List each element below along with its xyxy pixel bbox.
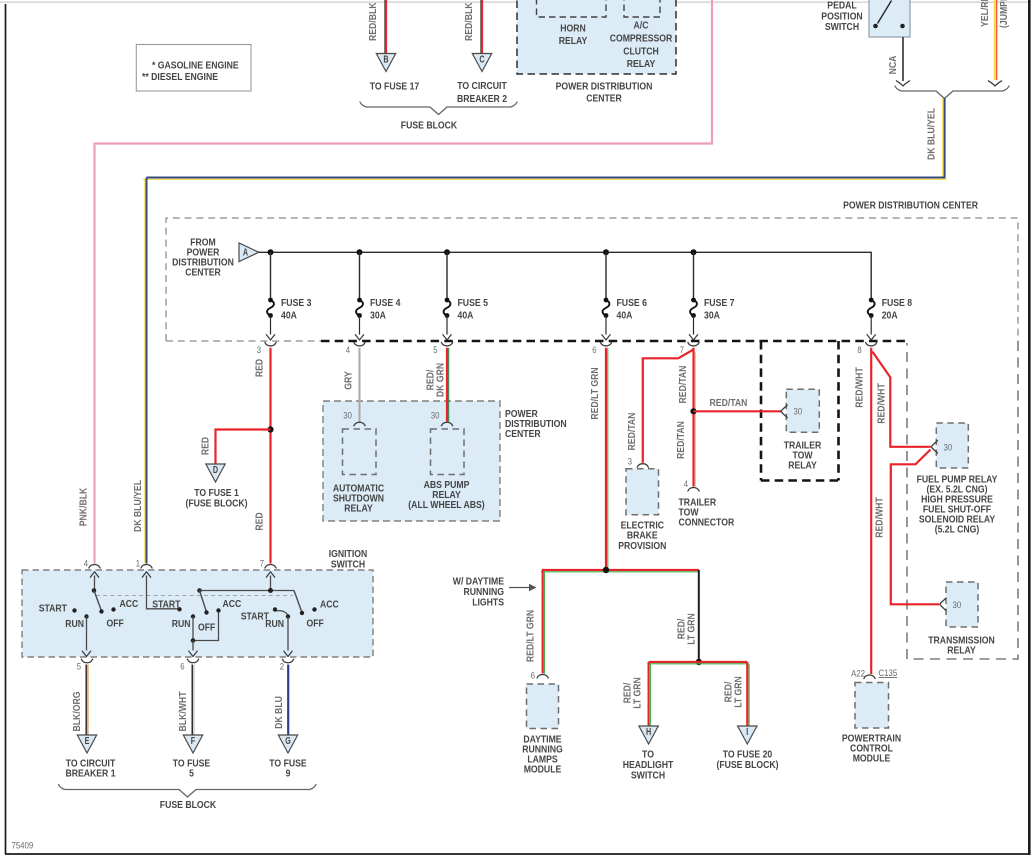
connector triangle G: [278, 735, 297, 753]
connector triangle C: [472, 54, 491, 72]
junction node trailer tow: [690, 408, 696, 414]
label RED/LT GRN (fuse 6): [590, 367, 601, 419]
label RED/WHT (branch lower): [875, 497, 886, 538]
daytime running lamps module box: [527, 684, 559, 729]
svg-text:7: 7: [260, 559, 264, 569]
label transmission relay: [928, 636, 995, 657]
svg-text:RED/BLK: RED/BLK: [464, 2, 475, 41]
svg-text:20A: 20A: [882, 311, 898, 322]
svg-text:8: 8: [857, 345, 861, 355]
svg-text:FUSE BLOCK: FUSE BLOCK: [160, 800, 217, 811]
svg-text:RELAY: RELAY: [947, 646, 976, 657]
svg-text:SWITCH: SWITCH: [331, 560, 365, 571]
trailer tow relay box: [786, 389, 819, 432]
wire RED/TAN branch to electric brake: [643, 350, 694, 463]
svg-text:LT GRN: LT GRN: [687, 613, 698, 645]
fuse 3 40A: [266, 252, 311, 340]
svg-text:W/ DAYTIME: W/ DAYTIME: [453, 577, 504, 588]
connector triangle D: [206, 464, 225, 482]
label horn relay: [559, 24, 588, 48]
wire PNK/BLK: [94, 0, 714, 564]
svg-text:7: 7: [680, 345, 684, 355]
svg-text:FUSE 6: FUSE 6: [617, 298, 648, 309]
pin 3 connector at PDC: [257, 342, 276, 355]
svg-text:RED/TAN: RED/TAN: [710, 398, 748, 409]
label automatic shutdown relay: [333, 484, 385, 515]
wire RED/DK GRN fuse 5 to ABS relay: [447, 348, 449, 422]
junction node RED: [267, 426, 273, 432]
DRL module pin 6: [531, 671, 549, 681]
svg-text:NCA: NCA: [888, 55, 899, 74]
svg-text:LT GRN: LT GRN: [734, 676, 745, 708]
label RED/LT GRN (fuse 20): [724, 676, 745, 708]
label electric brake provision: [618, 521, 666, 553]
svg-text:A: A: [243, 247, 249, 258]
svg-text:TO: TO: [642, 750, 654, 761]
pin 8 connector at PDC: [857, 342, 876, 355]
switch pole 2 feed: [142, 572, 177, 609]
switch pole 2 labels: [152, 599, 242, 634]
svg-text:RUN: RUN: [265, 619, 284, 630]
bus junction node fuse 4: [357, 249, 363, 255]
svg-text:(JUMPER): (JUMPER): [999, 0, 1010, 28]
switch pole 2 link node: [191, 638, 196, 643]
label RED/WHT (main): [855, 367, 866, 408]
label ignition switch: [329, 549, 368, 571]
automatic shutdown relay box: [343, 429, 377, 475]
svg-text:9: 9: [286, 769, 291, 780]
svg-text:CONNECTOR: CONNECTOR: [679, 518, 735, 529]
label DK BLU/YEL (at ignition): [133, 480, 144, 532]
brace joining NCA and jumper: [895, 86, 1009, 99]
svg-text:PROVISION: PROVISION: [618, 541, 666, 552]
pedal position switch box: [869, 0, 910, 37]
svg-text:LT GRN: LT GRN: [633, 677, 644, 709]
fuse 7 30A: [689, 252, 734, 340]
svg-text:FUSE 7: FUSE 7: [704, 298, 735, 309]
ignition pin 5: [77, 659, 93, 671]
svg-text:FUSE BLOCK: FUSE BLOCK: [401, 121, 458, 132]
wire RED/LT GRN fuse 6 down: [606, 348, 608, 570]
svg-text:FUSE 3: FUSE 3: [281, 298, 312, 309]
svg-text:RED/TAN: RED/TAN: [678, 366, 689, 404]
svg-text:FUSE 4: FUSE 4: [370, 298, 401, 309]
svg-text:6: 6: [180, 662, 184, 672]
svg-text:RED/WHT: RED/WHT: [877, 383, 888, 424]
wire RED/LT GRN to DRL module: [543, 570, 545, 674]
label RED (lower): [255, 512, 266, 530]
svg-text:RED: RED: [201, 437, 212, 455]
label to headlight switch: [623, 750, 674, 782]
label RED (upper): [255, 359, 266, 377]
label YEL/RED: [980, 0, 991, 27]
switch pole 1 common: [92, 588, 97, 593]
svg-text:OFF: OFF: [307, 619, 324, 630]
svg-text:DK GRN: DK GRN: [436, 363, 447, 397]
svg-text:* GASOLINE ENGINE: * GASOLINE ENGINE: [152, 61, 239, 72]
svg-text:FUSE 5: FUSE 5: [458, 298, 489, 309]
wire DK BLU/YEL: [143, 98, 947, 564]
svg-text:ACC: ACC: [320, 600, 339, 611]
switch pole 1 output: [82, 617, 90, 657]
powertrain control module box: [855, 683, 889, 729]
connector triangle H: [639, 726, 658, 744]
svg-text:TO FUSE 1: TO FUSE 1: [194, 488, 239, 499]
svg-text:RED/WHT: RED/WHT: [875, 497, 886, 538]
label pedal position switch: [821, 1, 862, 34]
wire RED/WHT branch to fuel pump relay: [872, 352, 930, 447]
switch pole 2 acc link: [193, 613, 219, 641]
svg-text:1: 1: [136, 559, 140, 569]
svg-text:RELAY: RELAY: [344, 504, 373, 515]
abs pump relay box: [431, 429, 465, 475]
label RED/LT GRN (headlight): [623, 677, 644, 709]
pin 6 connector at PDC: [592, 342, 611, 355]
label power distribution center (side): [505, 409, 567, 440]
switch pole 1 feed: [90, 572, 98, 591]
svg-text:(FUSE BLOCK): (FUSE BLOCK): [185, 499, 247, 510]
switch pole 1 blade: [94, 591, 102, 612]
diagram number 75409: [12, 841, 34, 851]
ABS relay pin 30: [431, 411, 453, 426]
label a/c compressor clutch relay: [610, 21, 673, 71]
electric brake pin 3: [628, 457, 649, 468]
wire RED/BLK to fuse 17: [385, 0, 386, 54]
svg-text:5: 5: [77, 662, 81, 672]
junction node pole 3 feed: [268, 588, 273, 593]
svg-text:RELAY: RELAY: [559, 36, 588, 47]
ignition common bus: [200, 590, 295, 592]
label RED (branch): [201, 437, 212, 455]
power distribution center outline (right, fuel pump/transmission area): [907, 341, 1018, 659]
svg-text:RELAY: RELAY: [788, 461, 817, 472]
pin 7 connector at PDC: [680, 342, 699, 355]
label RED/BLK (C): [464, 2, 475, 41]
switch pole 3 output: [284, 617, 292, 657]
trailer tow relay pin 30: [781, 405, 802, 417]
svg-text:FUSE 8: FUSE 8: [882, 298, 913, 309]
connector triangle F: [183, 735, 202, 753]
svg-text:BRAKE: BRAKE: [627, 531, 658, 542]
svg-text:RUN: RUN: [172, 619, 191, 630]
svg-text:3: 3: [628, 457, 632, 467]
wire BLK/WHT: [192, 665, 194, 736]
svg-text:RED/LT GRN: RED/LT GRN: [590, 367, 601, 419]
svg-text:TO FUSE 20: TO FUSE 20: [723, 750, 773, 761]
ASD relay pin 30: [343, 411, 365, 426]
connector triangle E: [77, 735, 96, 753]
switch pole 2 common: [197, 588, 202, 593]
switch pole 3 feed: [266, 572, 274, 591]
trailer tow relay enclosure: [761, 341, 839, 481]
horn relay box: [537, 0, 607, 17]
wire RED fuse 3 to ignition pin 7: [269, 348, 271, 564]
svg-text:BLK/ORG: BLK/ORG: [72, 691, 83, 731]
ignition pin 1: [136, 559, 152, 569]
svg-text:4: 4: [346, 345, 350, 355]
svg-text:MODULE: MODULE: [853, 754, 891, 765]
switch pole 3 labels: [241, 600, 340, 631]
svg-text:SWITCH: SWITCH: [631, 771, 665, 782]
svg-text:H: H: [646, 727, 651, 738]
svg-text:RED: RED: [255, 359, 266, 377]
svg-text:RED/LT GRN: RED/LT GRN: [526, 610, 537, 662]
thick dashed PDC boundary: [321, 340, 907, 343]
junction node headlight/fuse20: [696, 659, 702, 665]
svg-text:RELAY: RELAY: [627, 59, 656, 70]
svg-text:START: START: [39, 604, 68, 615]
junction node daytime running: [603, 567, 609, 573]
label to circuit breaker 2: [457, 81, 507, 105]
fuse block brace (top): [360, 102, 517, 115]
svg-text:(FUSE BLOCK): (FUSE BLOCK): [716, 760, 778, 771]
svg-text:75409: 75409: [12, 841, 34, 851]
svg-text:RUN: RUN: [65, 619, 84, 630]
svg-text:6: 6: [531, 671, 535, 681]
label to fuse 17: [370, 82, 420, 93]
svg-text:30: 30: [794, 407, 803, 417]
svg-text:RED/TAN: RED/TAN: [627, 413, 638, 451]
connector triangle A: [239, 243, 259, 262]
svg-text:E: E: [85, 736, 90, 747]
svg-text:GRY: GRY: [344, 371, 355, 390]
label to circuit breaker 1: [65, 759, 115, 780]
fuse block brace (bottom): [59, 785, 317, 798]
svg-text:PNK/BLK: PNK/BLK: [79, 487, 90, 526]
bus junction node fuse 6: [603, 249, 609, 255]
svg-text:LIGHTS: LIGHTS: [472, 598, 504, 609]
svg-text:RUNNING: RUNNING: [464, 587, 505, 598]
svg-text:30: 30: [431, 411, 440, 421]
wire RED/WHT fuse 8 to PCM: [870, 348, 872, 674]
svg-text:C135: C135: [879, 668, 898, 678]
bus junction node fuse 5: [444, 249, 450, 255]
svg-text:B: B: [383, 55, 388, 66]
ignition pin 6: [180, 659, 198, 671]
label RED/TAN (horizontal): [710, 398, 748, 409]
pin 5 connector at PDC: [433, 342, 452, 355]
bus junction node fuse 7: [691, 249, 697, 255]
svg-text:(5.2L CNG): (5.2L CNG): [935, 525, 980, 536]
label to fuse 1 (fuse block): [185, 488, 247, 510]
label GRY: [344, 371, 355, 390]
svg-text:HORN: HORN: [560, 24, 586, 35]
wire RED/TAN to trailer tow relay: [694, 410, 782, 412]
label DK BLU: [274, 696, 285, 729]
label abs pump relay: [408, 480, 484, 511]
svg-text:DK BLU/YEL: DK BLU/YEL: [927, 108, 938, 160]
svg-text:CENTER: CENTER: [185, 268, 221, 279]
svg-text:YEL/RED: YEL/RED: [980, 0, 991, 27]
svg-text:** DIESEL ENGINE: ** DIESEL ENGINE: [142, 72, 218, 83]
label fuse block (bottom): [160, 800, 217, 811]
svg-text:DK BLU: DK BLU: [274, 696, 285, 729]
switch pole 3 wiper arc: [277, 611, 288, 615]
svg-text:IGNITION: IGNITION: [329, 549, 368, 560]
ignition switch box: [22, 570, 373, 657]
label fuse block (top): [401, 121, 458, 132]
svg-text:40A: 40A: [281, 311, 297, 322]
label powertrain control module: [842, 734, 901, 765]
svg-text:START: START: [152, 600, 181, 611]
label to fuse 20 (fuse block): [716, 750, 778, 772]
svg-text:RED/TAN: RED/TAN: [676, 421, 687, 459]
fuse 4 30A: [355, 252, 400, 340]
ignition pin 7: [260, 559, 276, 569]
svg-text:ACC: ACC: [120, 599, 139, 610]
switch pole 3 contacts: [273, 607, 317, 618]
label from power distribution center: [172, 238, 234, 279]
svg-text:3: 3: [257, 345, 261, 355]
label RED/TAN (lower): [676, 421, 687, 459]
svg-text:30A: 30A: [704, 311, 720, 322]
switch pole 3 blade: [294, 591, 302, 613]
svg-text:(ALL WHEEL ABS): (ALL WHEEL ABS): [408, 500, 484, 511]
svg-text:CLUTCH: CLUTCH: [623, 47, 659, 58]
svg-text:F: F: [191, 736, 195, 747]
wire RED/WHT fuel pump to transmission relay: [891, 450, 939, 605]
wire NCA from pedal position switch: [896, 37, 909, 86]
label trailer tow connector: [679, 498, 735, 529]
label RED/DK GRN: [426, 363, 447, 397]
svg-text:C: C: [479, 55, 485, 66]
svg-text:HEADLIGHT: HEADLIGHT: [623, 760, 674, 771]
svg-text:6: 6: [592, 345, 596, 355]
legend box engine notes: [136, 45, 251, 92]
label BLK/WHT: [178, 691, 189, 732]
fuel pump relay pin 30: [931, 441, 952, 453]
label PNK/BLK: [79, 487, 90, 526]
wire GRY fuse 4 to ASD relay: [359, 348, 361, 422]
svg-text:30: 30: [343, 411, 352, 421]
wire RED/LT GRN vertical (drawn dark): [698, 570, 700, 662]
svg-text:ACC: ACC: [223, 599, 242, 610]
svg-text:DK BLU/YEL: DK BLU/YEL: [133, 480, 144, 532]
svg-text:CENTER: CENTER: [586, 94, 622, 105]
power distribution center box (ASD/ABS relays): [323, 401, 500, 521]
label power distribution center (upper box): [843, 201, 978, 212]
label power distribution center (top): [556, 82, 653, 105]
fuel pump relay box: [936, 423, 968, 468]
svg-text:RED/WHT: RED/WHT: [855, 367, 866, 408]
ignition pin 4: [84, 559, 100, 569]
svg-text:30: 30: [953, 600, 962, 610]
label RED/LT GRN (vertical): [677, 613, 698, 645]
wire YEL/RED jumper: [988, 0, 1001, 86]
a/c compressor clutch relay box: [624, 0, 660, 17]
wire RED/LT GRN horizontal: [541, 570, 699, 572]
ignition pin 2: [280, 659, 294, 671]
svg-text:G: G: [285, 736, 291, 747]
label DK BLU/YEL (vertical top): [927, 108, 938, 160]
svg-text:POWER DISTRIBUTION: POWER DISTRIBUTION: [556, 82, 653, 93]
connector triangle I: [738, 726, 757, 744]
svg-text:TO FUSE 17: TO FUSE 17: [370, 82, 420, 93]
transmission relay pin 30: [940, 598, 962, 610]
trailer tow connector pin 4: [684, 479, 699, 491]
callout arrow daytime running: [509, 584, 537, 591]
label to fuse 9: [269, 759, 307, 780]
svg-text:40A: 40A: [458, 311, 474, 322]
svg-text:OFF: OFF: [107, 619, 124, 630]
svg-text:2: 2: [280, 662, 284, 672]
label RED/TAN (upper): [678, 366, 689, 404]
label (JUMPER): [999, 0, 1010, 28]
bus wire from triangle A: [259, 252, 871, 299]
wire BLK/ORG: [86, 665, 88, 736]
PCM pin A22 connector C135: [851, 668, 897, 679]
transmission relay box: [946, 582, 978, 627]
svg-text:A/C: A/C: [634, 21, 649, 32]
svg-text:I: I: [746, 727, 748, 738]
label RED/LT GRN (DRL): [526, 610, 537, 662]
svg-text:5: 5: [189, 769, 194, 780]
label RED/BLK (B): [368, 2, 379, 41]
svg-text:4: 4: [84, 559, 88, 569]
label fuel pump relay: [917, 475, 998, 536]
svg-text:RED: RED: [255, 512, 266, 530]
svg-text:BREAKER 2: BREAKER 2: [457, 94, 507, 105]
fuse 8 20A: [867, 298, 912, 340]
svg-text:A22: A22: [851, 669, 865, 679]
label NCA: [888, 55, 899, 74]
power distribution center box (horn/ac relays): [517, 0, 676, 74]
svg-text:BLK/WHT: BLK/WHT: [178, 691, 189, 732]
fuse 6 40A: [602, 252, 647, 340]
svg-text:RED/BLK: RED/BLK: [368, 2, 379, 41]
label daytime running lamps module: [522, 735, 563, 776]
switch pole 2 contacts: [191, 608, 221, 618]
label to fuse 5: [173, 759, 211, 780]
svg-text:COMPRESSOR: COMPRESSOR: [610, 34, 673, 45]
svg-text:POWER DISTRIBUTION CENTER: POWER DISTRIBUTION CENTER: [843, 201, 978, 212]
mechanical link (dashed): [96, 595, 293, 597]
bus junction node fuse 3: [268, 249, 274, 255]
label w/ daytime running lights: [453, 577, 504, 609]
svg-text:4: 4: [684, 479, 688, 489]
svg-text:40A: 40A: [617, 311, 633, 322]
wire RED branch to fuse 1: [216, 430, 271, 465]
svg-text:30A: 30A: [370, 311, 386, 322]
switch pole 1 contacts: [72, 607, 115, 618]
label RED/TAN (electric brake): [627, 413, 638, 451]
pin 4 connector at PDC: [346, 342, 365, 355]
svg-text:BREAKER 1: BREAKER 1: [65, 769, 115, 780]
switch pole 2 output: [189, 641, 197, 657]
wire DK BLU: [287, 665, 289, 736]
svg-text:30: 30: [944, 443, 953, 453]
power distribution center outline (upper): [166, 218, 1018, 341]
svg-text:D: D: [213, 465, 218, 476]
svg-text:PEDAL: PEDAL: [827, 1, 856, 12]
switch pole 2 blade: [200, 591, 207, 613]
wire RED/BLK to circuit breaker 2: [481, 0, 482, 54]
pedal position switch contacts: [873, 1, 905, 29]
svg-text:SWITCH: SWITCH: [825, 22, 859, 33]
fuse 5 40A: [443, 252, 488, 340]
svg-text:5: 5: [433, 345, 437, 355]
svg-text:OFF: OFF: [198, 623, 215, 634]
wire RED/LT GRN to fuse 20: [699, 662, 749, 726]
label RED/WHT (branch upper): [877, 383, 888, 424]
svg-text:POSITION: POSITION: [821, 12, 862, 23]
switch pole 2 start contact: [177, 607, 181, 611]
wire RED/LT GRN to headlight switch: [649, 662, 699, 726]
svg-text:TO CIRCUIT: TO CIRCUIT: [457, 81, 507, 92]
electric brake provision box: [626, 469, 659, 515]
switch pole 1 labels: [39, 599, 139, 630]
wire RED/TAN fuse 7 down: [694, 348, 696, 487]
